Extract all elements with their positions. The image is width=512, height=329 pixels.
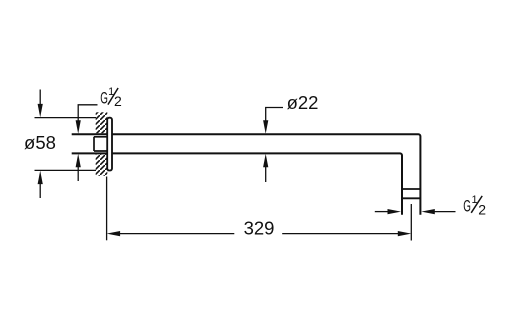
dimension 329 line with arrows xyxy=(107,231,412,236)
dimension ø58 extension lines xyxy=(35,118,97,171)
G1/2 right left arrow xyxy=(375,209,401,214)
dimension 329 extension line right (pipe centerline) xyxy=(410,204,412,241)
svg-text:2: 2 xyxy=(114,93,122,109)
dimension 329 extension line left xyxy=(106,177,108,241)
svg-text:ø58: ø58 xyxy=(24,132,56,153)
G1/2 right right arrow xyxy=(421,209,455,214)
thread root lines in wall xyxy=(94,137,107,151)
svg-text:G: G xyxy=(100,88,108,108)
svg-text:2: 2 xyxy=(478,202,486,218)
G1/2 right label xyxy=(463,194,486,218)
dimension ø22 leader and down arrow xyxy=(263,108,283,134)
svg-text:329: 329 xyxy=(244,217,275,238)
dimension ø58 bottom arrow xyxy=(38,171,43,198)
svg-text:ø22: ø22 xyxy=(287,92,319,113)
dimension ø58 top arrow xyxy=(38,90,43,118)
wall hatch upper xyxy=(96,112,108,133)
G1/2 left label xyxy=(100,86,122,109)
tube outline xyxy=(72,134,421,215)
dimension ø22 up arrow xyxy=(263,154,268,182)
G1/2 left up arrow xyxy=(76,154,81,181)
wall hatch lower xyxy=(96,154,108,175)
flange xyxy=(107,118,112,171)
svg-text:G: G xyxy=(463,195,471,215)
thread band at pipe end xyxy=(402,189,420,198)
G1/2 left leader and down arrow xyxy=(76,105,98,134)
